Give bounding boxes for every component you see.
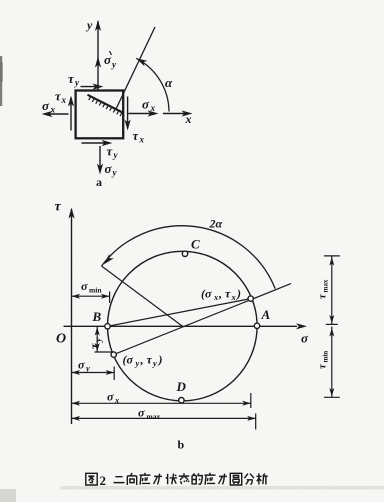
- svg-text:(σ: (σ: [201, 287, 212, 301]
- svg-text:C: C: [191, 237, 200, 252]
- svg-text:a: a: [96, 175, 102, 189]
- svg-text:max: max: [322, 279, 330, 292]
- svg-text:σ: σ: [138, 406, 145, 420]
- svg-text:2α: 2α: [209, 217, 223, 231]
- svg-text:b: b: [178, 438, 185, 452]
- svg-text:,: ,: [218, 287, 222, 301]
- svg-text:,: ,: [140, 353, 144, 367]
- svg-text:2: 2: [100, 473, 107, 488]
- svg-text:min: min: [322, 351, 330, 363]
- svg-text:α: α: [165, 75, 173, 90]
- svg-text:σ: σ: [81, 279, 88, 293]
- svg-text:): ): [236, 287, 241, 301]
- svg-text:σ: σ: [105, 161, 113, 176]
- svg-text:y: y: [85, 18, 93, 32]
- svg-text:y: y: [152, 358, 157, 368]
- svg-text:σ: σ: [42, 98, 50, 113]
- svg-text:σ: σ: [301, 331, 309, 346]
- svg-text:D: D: [176, 379, 187, 394]
- svg-text:x: x: [231, 292, 237, 302]
- svg-text:x: x: [61, 95, 67, 105]
- svg-text:x: x: [150, 103, 156, 113]
- svg-text:x: x: [50, 105, 56, 115]
- svg-text:x: x: [185, 112, 192, 126]
- svg-text:x: x: [139, 135, 145, 145]
- svg-text:): ): [158, 353, 163, 367]
- svg-text:y: y: [85, 363, 90, 373]
- svg-text:max: max: [147, 412, 161, 421]
- svg-text:A: A: [261, 307, 271, 322]
- svg-text:σ: σ: [107, 390, 114, 404]
- svg-text:min: min: [89, 286, 102, 295]
- svg-text:σ: σ: [142, 97, 150, 112]
- svg-text:y: y: [135, 358, 140, 368]
- svg-text:(σ: (σ: [123, 353, 134, 367]
- svg-text:τ: τ: [88, 343, 102, 349]
- svg-text:τ: τ: [147, 353, 153, 367]
- svg-text:τ: τ: [225, 287, 231, 301]
- svg-text:τ: τ: [55, 200, 62, 215]
- svg-text:σ: σ: [78, 358, 85, 372]
- svg-text:x: x: [114, 395, 120, 405]
- svg-text:O: O: [56, 332, 66, 347]
- svg-text:B: B: [92, 309, 102, 324]
